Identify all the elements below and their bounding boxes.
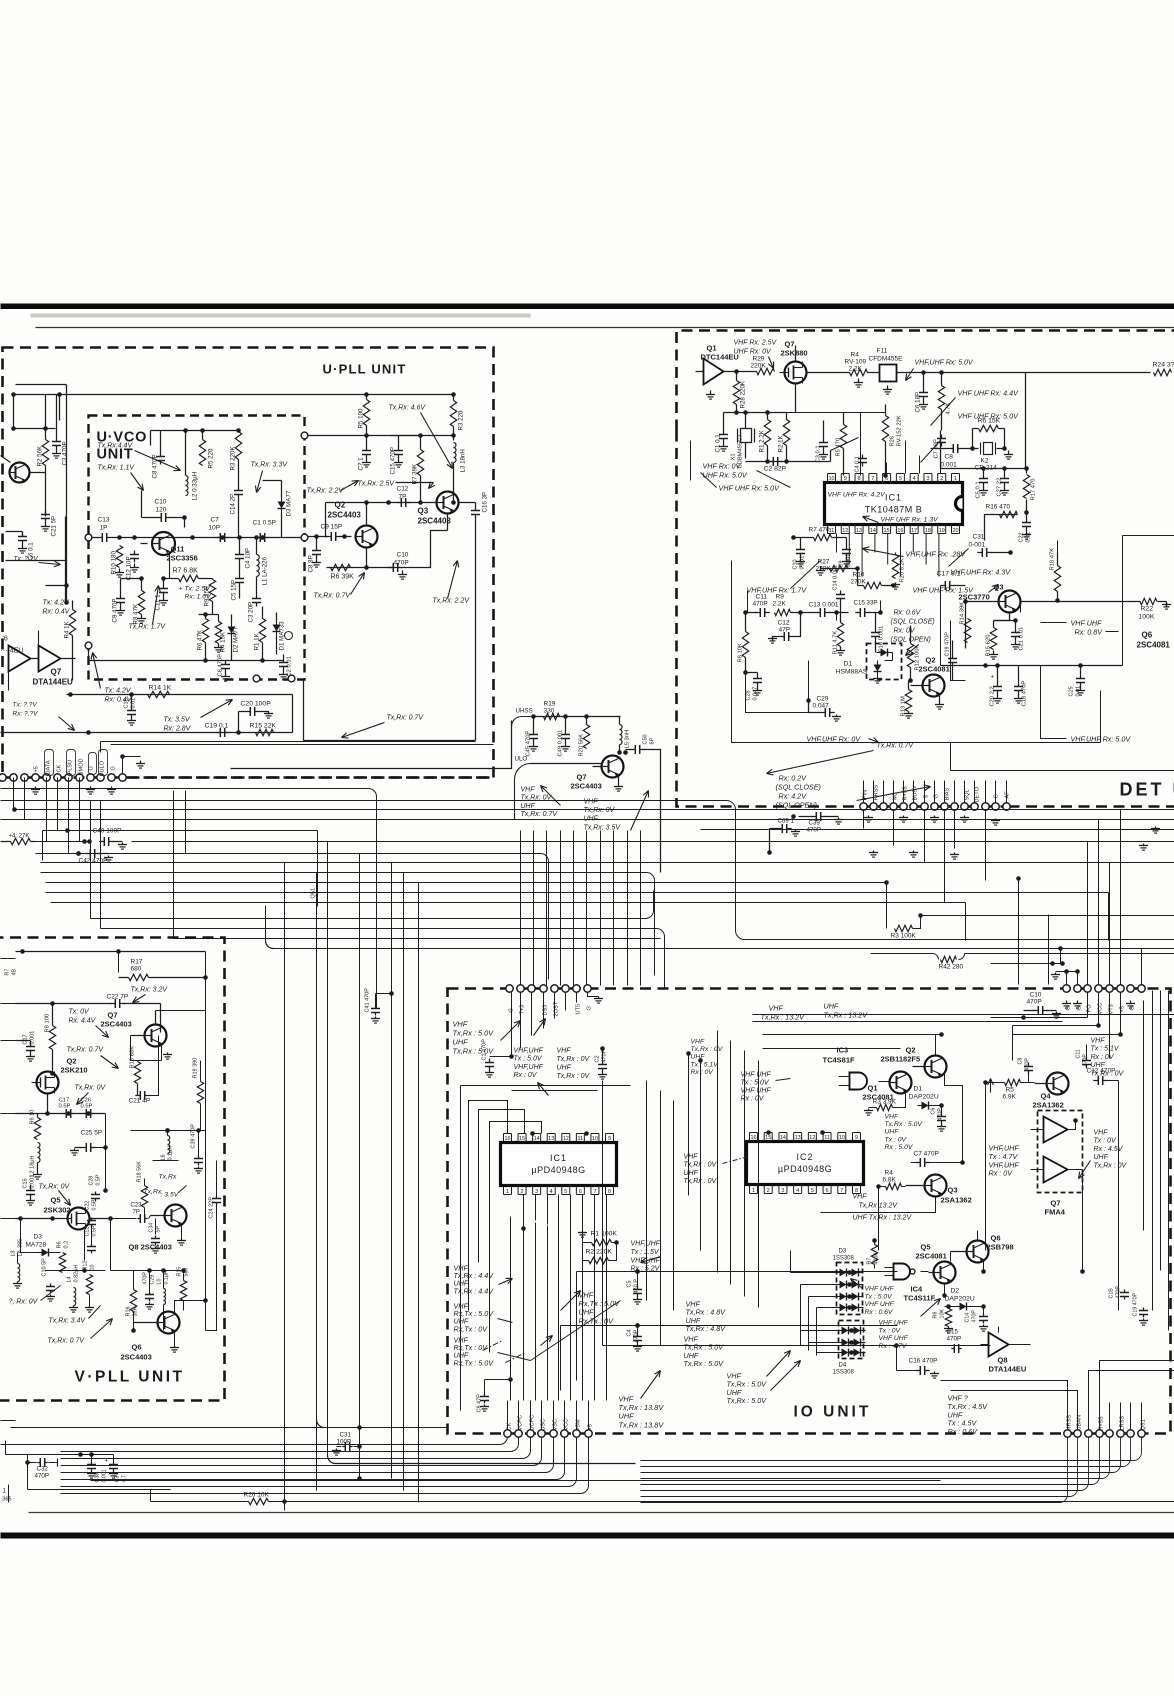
svg-text:VHF: VHF [1094,1130,1109,1137]
capacitor C69 1 [767,818,800,855]
transistor Q8 2SC4403 vpll [151,1205,187,1227]
svg-text:C31: C31 [340,1432,352,1439]
svg-text:C8: C8 [945,454,954,461]
resistor R26 RV-152 22K [882,405,902,478]
svg-text:UHF: UHF [521,803,536,810]
ground stubs near DET pins [1139,827,1160,851]
node tx voltage label left [43,600,71,616]
label V-PLL UNIT [75,1369,185,1386]
capacitor C18 0.01 (left) [124,695,137,726]
wire bus line C [1,801,1174,940]
connector IO bottom-right pin row [1064,1430,1145,1437]
svg-text:R8 47K: R8 47K [133,603,140,625]
capacitor C38 0.001 bottom [87,1455,108,1483]
capacitor C7 58P [934,435,947,459]
svg-text:C21 0.01: C21 0.01 [1019,627,1025,651]
capacitor C22 0.01 [1019,513,1032,543]
transistor Q3 2SC3770 [998,591,1021,613]
svg-text:VHF: VHF [853,1194,868,1201]
svg-text:0.82µH: 0.82µH [74,1265,80,1283]
svg-text:Tx,Rx : 0V: Tx,Rx : 0V [684,1178,718,1185]
U-PLL unit boundary box [3,348,494,778]
svg-text:Tx: ?.?V: Tx: ?.?V [13,702,38,709]
node Tx: 2.5V Rx: 1.0V annotation [179,586,213,601]
svg-text:D2 MA77: D2 MA77 [233,626,240,652]
svg-text:R5 220: R5 220 [208,448,215,469]
svg-text:Tx: 4.2V: Tx: 4.2V [105,688,132,695]
svg-text:UHF: UHF [557,1065,572,1072]
svg-text:4: 4 [796,1188,799,1194]
wire bus line L [46,893,1109,941]
node VHF Tx,Rx 0V annotation gate [691,1039,724,1076]
transistor Q4 2SA1362 [1035,1073,1069,1095]
capacitor C9 470P [112,579,141,623]
wire io inner long verticals [647,1031,759,1346]
label Q5 2SC4081 io [916,1243,947,1261]
svg-text:C49 0.001: C49 0.001 [558,730,564,757]
svg-text:Tx,Rx: 2.2V: Tx,Rx: 2.2V [433,598,471,605]
svg-text:13: 13 [548,1136,554,1142]
wire IC1 pin risers [887,441,941,474]
node open terminal VCO right rail [301,432,308,541]
svg-text:MA728: MA728 [26,1242,47,1249]
node VHF Tx,Rx 4.4V annotation left [454,1264,513,1296]
svg-text:Q5: Q5 [51,1196,61,1205]
svg-text:14: 14 [780,1135,786,1141]
capacitor C23 7P [108,1203,150,1224]
svg-text:R29: R29 [753,356,765,363]
wire Q2 det emitter [935,695,944,710]
svg-text:R4 15K: R4 15K [220,631,227,653]
svg-text:Tx,Rx: 0.7V: Tx,Rx: 0.7V [314,593,352,600]
node Tx Rx:4.4V annotation [98,443,181,471]
wire U-PLL inner bottom rail [304,681,476,741]
svg-text:C14: C14 [965,1313,971,1323]
transistor Q7 2SC4403 vpll [131,1025,167,1047]
svg-text:10: 10 [839,1135,845,1141]
wire Q11 emitter [169,552,171,579]
connector IO bottom-left pin row [504,1430,592,1437]
inductor L2 18uH [30,1143,43,1180]
transistor Q3 2SC4403 [436,492,459,514]
transistor Q3 2SA1362 [906,1175,947,1197]
svg-text:L3: L3 [11,1250,17,1256]
svg-text:0.5P: 0.5P [92,1199,98,1210]
svg-text:12: 12 [842,528,848,534]
svg-text:Tx,Rx: 1.1V: Tx,Rx: 1.1V [98,465,136,472]
svg-text:C25: C25 [1069,686,1075,696]
svg-text:C14 0.001: C14 0.001 [833,565,839,590]
svg-text:?, Rx: 0V: ?, Rx: 0V [9,1299,39,1306]
svg-text:C45 470P: C45 470P [526,731,532,757]
resistor R6 10K io [933,1304,954,1333]
svg-text:C24 22P: C24 22P [209,1197,215,1219]
wire X1 bottom rail [746,459,831,464]
svg-text:VHF,UHF: VHF,UHF [514,1048,544,1055]
capacitor C25 5P [70,1114,108,1156]
svg-text:UHF: UHF [1091,1062,1106,1069]
svg-text:5: 5 [564,1189,567,1195]
resistor R7 400K io [867,1238,880,1268]
svg-text:Tx,Rx: 0.7V: Tx,Rx: 0.7V [877,743,915,750]
IC U1 TK10487M B [825,474,963,535]
svg-text:C20 100P: C20 100P [241,701,272,708]
svg-text:2SK302: 2SK302 [44,1206,71,1215]
svg-text:R15 620: R15 620 [986,635,992,657]
wire io mid rails [561,1269,898,1390]
wire q5 emitter rail [603,1081,991,1348]
transistor Q1 2SC4081 io [889,1072,912,1094]
svg-text:VHF,UHF Rx: 5.0V: VHF,UHF Rx: 5.0V [1071,735,1132,744]
svg-text:VHF: VHF [584,799,599,806]
node VHF Tx,Rx 0V annotation ic2 [684,1154,749,1186]
label DET UNIT [1120,780,1174,800]
capacitor C41 470P mid [365,988,394,1023]
IC U2 uPD40948G [747,1133,864,1195]
svg-text:R22: R22 [1141,606,1154,613]
svg-text:'6: '6 [3,636,8,643]
capacitor C17 0.001 vpll [16,1031,36,1061]
svg-text:Q2: Q2 [926,656,936,665]
capacitor column C28 C22 C12 0.5P [85,1174,102,1253]
svg-text:2: 2 [521,1189,524,1195]
resistor R44 27K [1,834,36,845]
svg-text:Q2: Q2 [335,501,346,510]
capacitor C11 1 [155,579,169,611]
svg-text:C32: C32 [37,1466,49,1473]
resistor R26 10K [151,1490,1174,1505]
wire thin bottom rule [29,1512,1174,1514]
svg-text:Tx: ?,?V: Tx: ?,?V [14,556,39,563]
svg-text:100K: 100K [1139,614,1155,621]
svg-text:C50: C50 [643,734,649,744]
svg-text:R14 1K: R14 1K [149,685,172,692]
svg-text:10: 10 [90,1265,96,1271]
diodes in D3 [836,1269,864,1312]
resistor R6 47K [197,612,219,660]
capacitor C1 470P io [482,993,514,1078]
svg-text:1: 1 [752,1188,755,1194]
svg-text:5P: 5P [156,1226,162,1233]
svg-text:Tx,Rx : 0V: Tx,Rx : 0V [557,1056,591,1063]
DET unit boundary box [677,331,1174,807]
svg-text:8: 8 [608,1189,611,1195]
capacitor C19 470P right2 [1133,1292,1149,1325]
resistor R14 39K det [960,602,971,643]
svg-text:C15: C15 [947,1329,959,1336]
amplifier Q7 FMA4 [1031,1111,1083,1193]
svg-text:0.2: 0.2 [64,1241,70,1249]
resistor R22 100K [1139,598,1172,620]
svg-text:C22: C22 [85,1201,91,1211]
svg-text:2SC4403: 2SC4403 [418,517,452,526]
label Q7 2SK880 [781,340,808,358]
node VHF Rx,Tx 5.0 annotation left [454,1302,513,1334]
capacitor C16 0.001 det [871,613,885,653]
inductor L3 LA-385 [11,1239,24,1288]
capacitor C20 100P [239,701,274,733]
node Tx Rx: 0.7V annotation [314,573,365,600]
svg-text:Tx: 0V: Tx: 0V [69,1009,91,1016]
svg-text:(SQL OPEN): (SQL OPEN) [776,801,817,810]
wire io bottom right nets [941,1361,1174,1403]
svg-text:Q8 2SC4403: Q8 2SC4403 [129,1243,172,1252]
node Tx Rx 0V annotation q5 [39,1184,71,1206]
wire vpll to bottom verticals [285,863,317,1511]
svg-text:C2 0.01: C2 0.01 [287,656,293,676]
svg-text:C10 5P: C10 5P [42,1258,48,1277]
svg-text:C42 470P: C42 470P [79,858,108,865]
svg-text:R15 22K: R15 22K [250,723,277,730]
inductor L2 0.33uH [183,428,198,500]
svg-text:470P: 470P [35,1473,49,1480]
svg-text:R1 1K: R1 1K [254,632,261,650]
capacitor C45 470P [526,717,539,757]
node Rx squelch annotation bottom [776,774,931,810]
svg-text:16: 16 [897,528,903,534]
wire bottom right elbow bundle [641,1438,1068,1503]
resistor R7 39K [412,436,424,503]
capacitor row C11 R9 [746,594,816,618]
svg-text:ULO: ULO [515,756,528,763]
svg-text:C8 8P: C8 8P [308,555,315,572]
svg-text:C25 5P: C25 5P [81,1130,103,1137]
svg-text:Tx : 1.5V: Tx : 1.5V [631,1249,660,1256]
capacitor C37 bottom [105,1455,128,1483]
capacitor C15 33P [854,600,883,618]
svg-text:C15 470P: C15 470P [390,447,397,475]
U-VCO unit boundary box [89,416,305,680]
node Tx Rx: 2.2V annotation right [433,561,471,605]
capacitor C10 120 [142,491,187,528]
node VHF,UHF Tx 5.0V io annotation [514,1048,544,1080]
resistor R1 1K [254,607,266,661]
node VHF,UHF Rx -5.0V annotation [906,360,974,381]
wire left vertical to Q7 pair [6,517,66,601]
resistor R13 1M [901,681,914,719]
wire faint subtitle bar [31,314,531,318]
svg-text:Tx : 0V: Tx : 0V [1094,1138,1118,1145]
svg-text:33P: 33P [867,600,878,607]
svg-text:R20 56K: R20 56K [579,734,585,757]
svg-text:HRSS: HRSS [874,785,880,801]
wire Q7 gate feed [787,405,886,476]
svg-text:VHF,UHF: VHF,UHF [514,1064,544,1071]
svg-text:C12: C12 [778,620,790,627]
svg-text:Rx: 4.2V: Rx: 4.2V [779,792,808,801]
IO unit boundary box [448,989,1171,1434]
svg-text:Rx : 0.6V: Rx : 0.6V [865,1309,894,1316]
capacitor C10 0.001 det [793,538,806,570]
svg-text:Tx,Rx : 0V: Tx,Rx : 0V [557,1073,591,1080]
ground io tl pin [588,993,604,1004]
svg-text:470P: 470P [947,1336,962,1343]
svg-text:2SC4081: 2SC4081 [916,1252,947,1261]
svg-text:R4: R4 [851,352,860,359]
svg-text:DETO: DETO [975,786,981,802]
wire R14 rail [67,692,293,732]
wire Q3 emitter feedback [389,503,476,568]
wire ULO net [515,756,602,820]
svg-text:Tx,Rx : 5.0V: Tx,Rx : 5.0V [727,1396,768,1405]
resistor R4 6.8K io [876,1170,905,1251]
resistor R10 180 [111,546,125,578]
transistor Q7 2SC4403 mid [593,756,624,778]
svg-text:Q11: Q11 [171,545,185,554]
svg-text:VT3: VT3 [1109,1004,1115,1014]
node VHF UHF mid annotations [521,786,649,832]
node Tx Rx 3.4V annotation [49,1306,101,1325]
resistor R7 470 (det) [791,527,846,541]
svg-text:VHF: VHF [769,1004,784,1013]
capacitor C21 4P [129,1036,159,1105]
capacitor C29 470P vpll2 [143,1271,156,1310]
wire right pins below nets [991,964,1123,1061]
node VHF Tx,Rx 0V io annotation [534,1019,591,1096]
wire D3 D4 input lines [791,1273,840,1353]
svg-text:470P: 470P [972,1310,978,1323]
node Tx Rx: 1.7V annotation [129,586,167,631]
wire q6 nets [170,1298,208,1352]
label Q6 2SC4403 vpll [121,1343,152,1362]
svg-text:15: 15 [765,1135,771,1141]
wire VCO bottom rail [85,642,283,663]
svg-text:C1 470P: C1 470P [482,1039,488,1061]
svg-text:Rx : 0V: Rx : 0V [1091,1054,1115,1061]
svg-text:1: 1 [506,1189,509,1195]
svg-text:R10: R10 [853,572,865,579]
resistor R14 1K [148,685,172,698]
label Q8 DTA144EU io [989,1356,1027,1374]
node VHF UHF Rx 1.5V annotation [913,585,999,595]
svg-text:Tx,Rx 13.2V: Tx,Rx 13.2V [859,1203,899,1210]
svg-text:9: 9 [855,1135,858,1141]
svg-text:10: 10 [828,476,834,482]
svg-text:C22 7P: C22 7P [107,994,129,1001]
wire Q2 source net [16,1094,106,1116]
svg-text:L4: L4 [67,1276,73,1282]
wire bus line H [36,851,549,979]
svg-text:Q7: Q7 [51,668,62,677]
resistor R7 6.8K [161,568,212,582]
svg-text:Rx : 0.6V: Rx : 0.6V [948,1427,979,1436]
transistor Q2 2SC4403 [355,526,378,548]
svg-text:C41 470P: C41 470P [365,988,371,1013]
svg-text:D1: D1 [844,661,853,668]
resistor R20 8.2K [891,553,906,590]
svg-text:R42 280: R42 280 [939,964,964,971]
svg-text:15: 15 [884,528,890,534]
svg-text:Tx : 5.1V: Tx : 5.1V [1091,1046,1120,1053]
svg-text:Q7: Q7 [577,773,587,782]
svg-text:R2 220K: R2 220K [586,1249,613,1256]
label Q2 2SC4403 [328,501,362,520]
svg-text:R9 15K: R9 15K [204,585,211,607]
svg-text:C11: C11 [756,594,768,601]
capacitor C7 1 [358,436,372,471]
wire bus line B [1,789,377,1009]
svg-text:7: 7 [871,476,874,482]
wire vpll top rail [16,949,206,1330]
wire DET top rail to R24 [913,373,1151,469]
svg-text:Tx,Rx : 13.2V: Tx,Rx : 13.2V [824,1011,869,1020]
svg-text:Rx: 2.8V: Rx: 2.8V [164,726,192,733]
svg-text:470 P: 470 P [634,1279,640,1294]
wire bottom left edge stubs [1,1421,61,1503]
IC U3 TC4S81F gate [823,1046,890,1090]
wire bus line G [36,839,1174,844]
wire 13.2V rails [753,1002,1174,1022]
wire bias rail [309,433,456,438]
svg-text:(SQL OPEN): (SQL OPEN) [891,637,931,644]
wire IC1 pin1 rail [521,1217,526,1231]
label D1 HSM88AS [836,661,868,676]
svg-text:IC3: IC3 [837,1046,849,1055]
svg-text:0.5P: 0.5P [92,1225,98,1236]
label Q6 2SC4081 right [1137,631,1171,650]
svg-text:C10: C10 [397,552,409,559]
svg-text:U·PLL UNIT: U·PLL UNIT [323,362,407,377]
svg-text:2.2K: 2.2K [773,601,787,608]
svg-text:R16 470: R16 470 [986,504,1011,511]
node open terminals U-VCO bottom [253,675,295,682]
capacitor C19 470P det [945,632,958,681]
svg-text:C19 470P: C19 470P [945,632,951,657]
wire Q7 mid emitter ground [614,777,623,792]
wire right column verticals io [1144,991,1169,1331]
wire mid verticals to IO [520,831,522,986]
capacitor C9 0.001 det [839,538,852,568]
svg-text:+4: 27K: +4: 27K [9,834,30,840]
svg-text:R24 3?: R24 3? [1153,362,1174,369]
capacitor C14 2P [230,471,244,538]
node Tx,Rx: 0.7V annotation bottom [342,715,425,739]
connector left pin row [0,774,126,781]
capacitor C22 7P [16,994,161,1033]
node Tx Rx: 3.3V annotation [251,462,289,493]
capacitor C8 470P [152,431,166,479]
svg-text:470P: 470P [938,1108,944,1121]
svg-text:D3: D3 [839,1249,847,1255]
svg-text:VHF: VHF [1091,1038,1106,1045]
svg-text:D2: D2 [951,1288,960,1295]
svg-text:····4EU: ····4EU [1,648,24,655]
svg-text:2SA1362: 2SA1362 [941,1196,972,1205]
svg-text:R6 15K: R6 15K [978,418,1001,425]
label Q6 2SB798 [987,1234,1014,1252]
capacitor C12 470P io [1087,1068,1119,1086]
capacitor C49 0.001 [558,717,571,757]
wire thin top rule [36,327,1174,329]
svg-text:C1B: C1B [1109,1288,1115,1299]
diode D2 MA77 [228,615,240,661]
wire bus line K [46,880,889,885]
svg-text:VHF Rx: 0V: VHF Rx: 0V [703,462,742,471]
capacitor C19 0.1 [205,723,229,738]
svg-text:Tx,Rx: 0V: Tx,Rx: 0V [39,1184,71,1191]
capacitor C14 0.001 det [833,565,846,612]
resistor R11 4.7K [833,613,846,656]
svg-text:Tx,Rx: 4.6V: Tx,Rx: 4.6V [389,405,427,412]
svg-text:UHSS: UHSS [516,708,533,715]
svg-text:0.001: 0.001 [941,462,958,469]
capacitor C6 0.1 [6,532,35,561]
resistor R8 10K [738,610,749,675]
svg-text:Tx,Rx: 2.5V: Tx,Rx: 2.5V [358,481,396,488]
svg-text:DTA144EU: DTA144EU [989,1365,1027,1374]
svg-text:R6: R6 [57,1241,63,1248]
svg-text:0.5P: 0.5P [59,1104,71,1110]
